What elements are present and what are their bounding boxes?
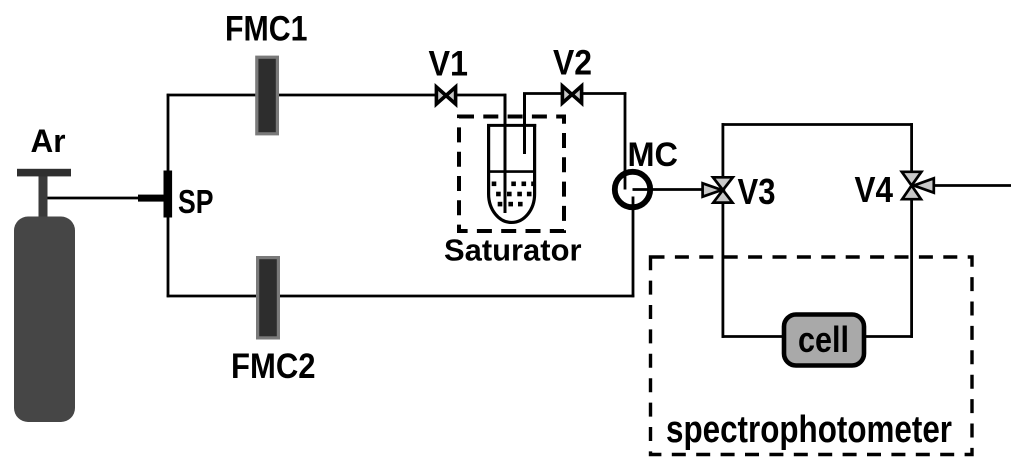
svg-text:spectrophotometer: spectrophotometer bbox=[666, 409, 952, 451]
svg-text:V4: V4 bbox=[855, 169, 894, 210]
svg-text:MC: MC bbox=[628, 136, 679, 174]
svg-text:V3: V3 bbox=[738, 171, 776, 212]
svg-text:V1: V1 bbox=[429, 45, 469, 84]
svg-text:Saturator: Saturator bbox=[444, 233, 582, 268]
svg-text:FMC2: FMC2 bbox=[231, 347, 316, 386]
svg-text:FMC1: FMC1 bbox=[225, 10, 308, 49]
svg-text:cell: cell bbox=[798, 319, 849, 360]
svg-text:V2: V2 bbox=[553, 44, 592, 83]
svg-text:SP: SP bbox=[178, 183, 214, 220]
svg-text:Ar: Ar bbox=[31, 123, 66, 159]
